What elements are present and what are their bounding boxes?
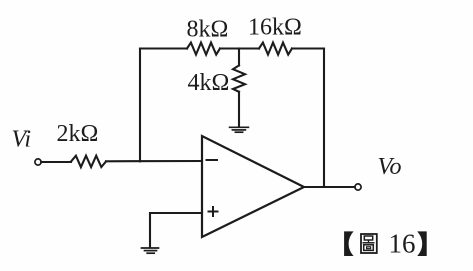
resistor 4kΩ (233, 65, 245, 91)
node A junction wire to R 4k (238, 49, 240, 66)
svg-text:Vo: Vo (378, 154, 402, 180)
wire R 16k to right corner (292, 47, 324, 49)
op-amp inverting pin minus sign (207, 159, 218, 161)
wire R 2k to op-amp inverting input (106, 160, 202, 162)
svg-text:16: 16 (389, 229, 416, 259)
resistor 8kΩ (187, 43, 220, 55)
node Vi input terminal (35, 159, 41, 165)
wire op-amp output to Vo terminal (304, 186, 355, 188)
wire input terminal to R 2k (41, 161, 71, 163)
wire top left to R 8k (140, 47, 187, 49)
wire right vertical to output node (323, 49, 325, 188)
wire feedback left vertical (139, 49, 141, 162)
resistor 16kΩ (259, 43, 292, 55)
svg-text:Vi: Vi (12, 127, 32, 153)
caption figure 16 (344, 229, 427, 259)
op-amp non-inverting pin plus sign (209, 207, 218, 216)
wire non-inverting input to ground (150, 213, 202, 247)
label 4kΩ (188, 70, 230, 96)
node Vo output terminal (355, 184, 361, 190)
svg-text:2kΩ: 2kΩ (57, 121, 99, 147)
svg-text:8kΩ: 8kΩ (187, 16, 229, 42)
label Vi (12, 127, 32, 153)
left lenticular bracket (344, 231, 354, 256)
ground G2 (non-inverting input) (142, 248, 159, 253)
resistor 2kΩ (71, 156, 106, 167)
label 8kΩ (187, 16, 229, 42)
label Vo (378, 154, 402, 180)
op-amp U1 (202, 136, 304, 237)
wire R 8k to node A (220, 47, 259, 49)
label 2kΩ (57, 121, 99, 147)
wire R 4k to ground (238, 92, 240, 127)
right lenticular bracket (417, 231, 427, 256)
svg-text:4kΩ: 4kΩ (188, 70, 230, 96)
glyph 圖 (361, 234, 377, 253)
label 16kΩ (248, 14, 302, 40)
svg-text:16kΩ: 16kΩ (248, 14, 302, 40)
ground G1 (below 4k) (230, 127, 249, 132)
